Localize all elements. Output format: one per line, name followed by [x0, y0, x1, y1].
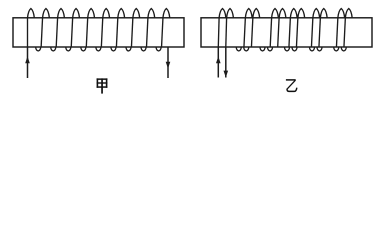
coil 甲 bottom arc 2	[51, 47, 56, 51]
coil 甲 bottom arc 1	[36, 47, 41, 51]
coil 甲 turn 6: top arc and front wire	[101, 9, 109, 48]
coil 甲 bottom arc 4	[81, 47, 86, 51]
coil 乙 bottom arc 1	[236, 47, 241, 51]
coil 甲 turn 2: top arc and front wire	[41, 9, 49, 48]
coil 乙 bottom arc 6	[292, 47, 297, 51]
coil 甲 turn 1: top arc and front wire	[28, 9, 35, 48]
left lead wire of coil 甲 (current in)	[27, 47, 29, 78]
coil 乙 turn 5: top arc and front wire	[270, 9, 278, 48]
coil 乙 turn 2: top arc and front wire	[226, 9, 234, 48]
coil 甲 turn 10: top arc and front wire	[162, 9, 170, 48]
coil 甲 turn 4: top arc and front wire	[71, 9, 79, 48]
up arrowhead on left lead of coil 乙	[216, 56, 221, 63]
left lead wire of coil 乙 (current in)	[217, 47, 219, 78]
coil 乙 turn 10: top arc and front wire	[319, 9, 327, 48]
coil 甲 turn 9: top arc and front wire	[147, 9, 155, 48]
right lead wire of coil 乙 (current out)	[225, 47, 227, 78]
coil 甲 turn 3: top arc and front wire	[56, 9, 64, 48]
coil 甲 turn 8: top arc and front wire	[131, 9, 139, 48]
coil 乙 bottom arc 5	[285, 47, 290, 51]
right lead wire of coil 甲 (current out)	[167, 47, 169, 78]
iron core bar of coil 甲	[13, 18, 184, 47]
up arrowhead on left lead of coil 甲	[25, 56, 30, 63]
coil 甲 bottom arc 6	[111, 47, 116, 51]
label 乙 (yi) below right coil, drawn as strokes	[286, 80, 297, 92]
coil 乙 bottom arc 9	[334, 47, 339, 51]
coil 乙 turn 12: top arc and front wire	[344, 9, 352, 48]
coil 乙 bottom arc 7	[310, 47, 315, 51]
down arrowhead on right lead of coil 甲	[166, 62, 171, 69]
coil 甲 turn 5: top arc and front wire	[86, 9, 94, 48]
coil 乙 turn 1: top arc and front wire	[218, 9, 226, 48]
coil 甲 bottom arc 3	[66, 47, 71, 51]
iron core bar of coil 乙	[201, 18, 372, 47]
coil 甲 bottom arc 9	[156, 47, 161, 51]
coil 乙 bottom arc 3	[260, 47, 265, 51]
coil 乙 bottom arc 8	[317, 47, 322, 51]
coil 乙 turn 7: top arc and front wire	[289, 9, 297, 48]
coil 乙 turn 8: top arc and front wire	[296, 9, 304, 48]
coil 乙 turn 6: top arc and front wire	[278, 9, 286, 48]
coil 乙 turn 4: top arc and front wire	[251, 9, 259, 48]
coil 甲 bottom arc 5	[96, 47, 101, 51]
coil 甲 bottom arc 7	[126, 47, 131, 51]
coil 乙 turn 9: top arc and front wire	[311, 9, 319, 48]
label 甲 (jia) below left coil, drawn as strokes	[97, 78, 108, 93]
coil 甲 bottom arc 8	[141, 47, 146, 51]
coil 乙 bottom arc 2	[244, 47, 249, 51]
coil 乙 bottom arc 10	[341, 47, 346, 51]
down arrowhead on right lead of coil 乙	[224, 71, 229, 78]
coil 甲 turn 7: top arc and front wire	[116, 9, 124, 48]
coil 乙 bottom arc 4	[268, 47, 273, 51]
coil 乙 turn 3: top arc and front wire	[244, 9, 252, 48]
coil 乙 turn 11: top arc and front wire	[336, 9, 344, 48]
